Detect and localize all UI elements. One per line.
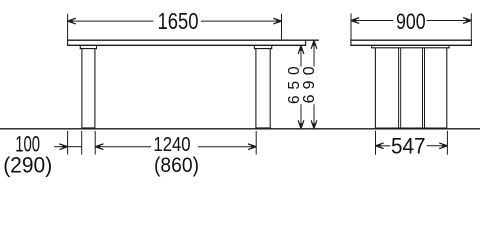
- svg-text:547: 547: [391, 133, 426, 158]
- svg-text:690: 690: [301, 66, 318, 103]
- svg-text:(290): (290): [3, 152, 52, 177]
- svg-text:(860): (860): [154, 154, 199, 177]
- svg-text:900: 900: [396, 9, 426, 34]
- svg-text:1650: 1650: [158, 8, 199, 34]
- svg-text:1240: 1240: [153, 133, 190, 156]
